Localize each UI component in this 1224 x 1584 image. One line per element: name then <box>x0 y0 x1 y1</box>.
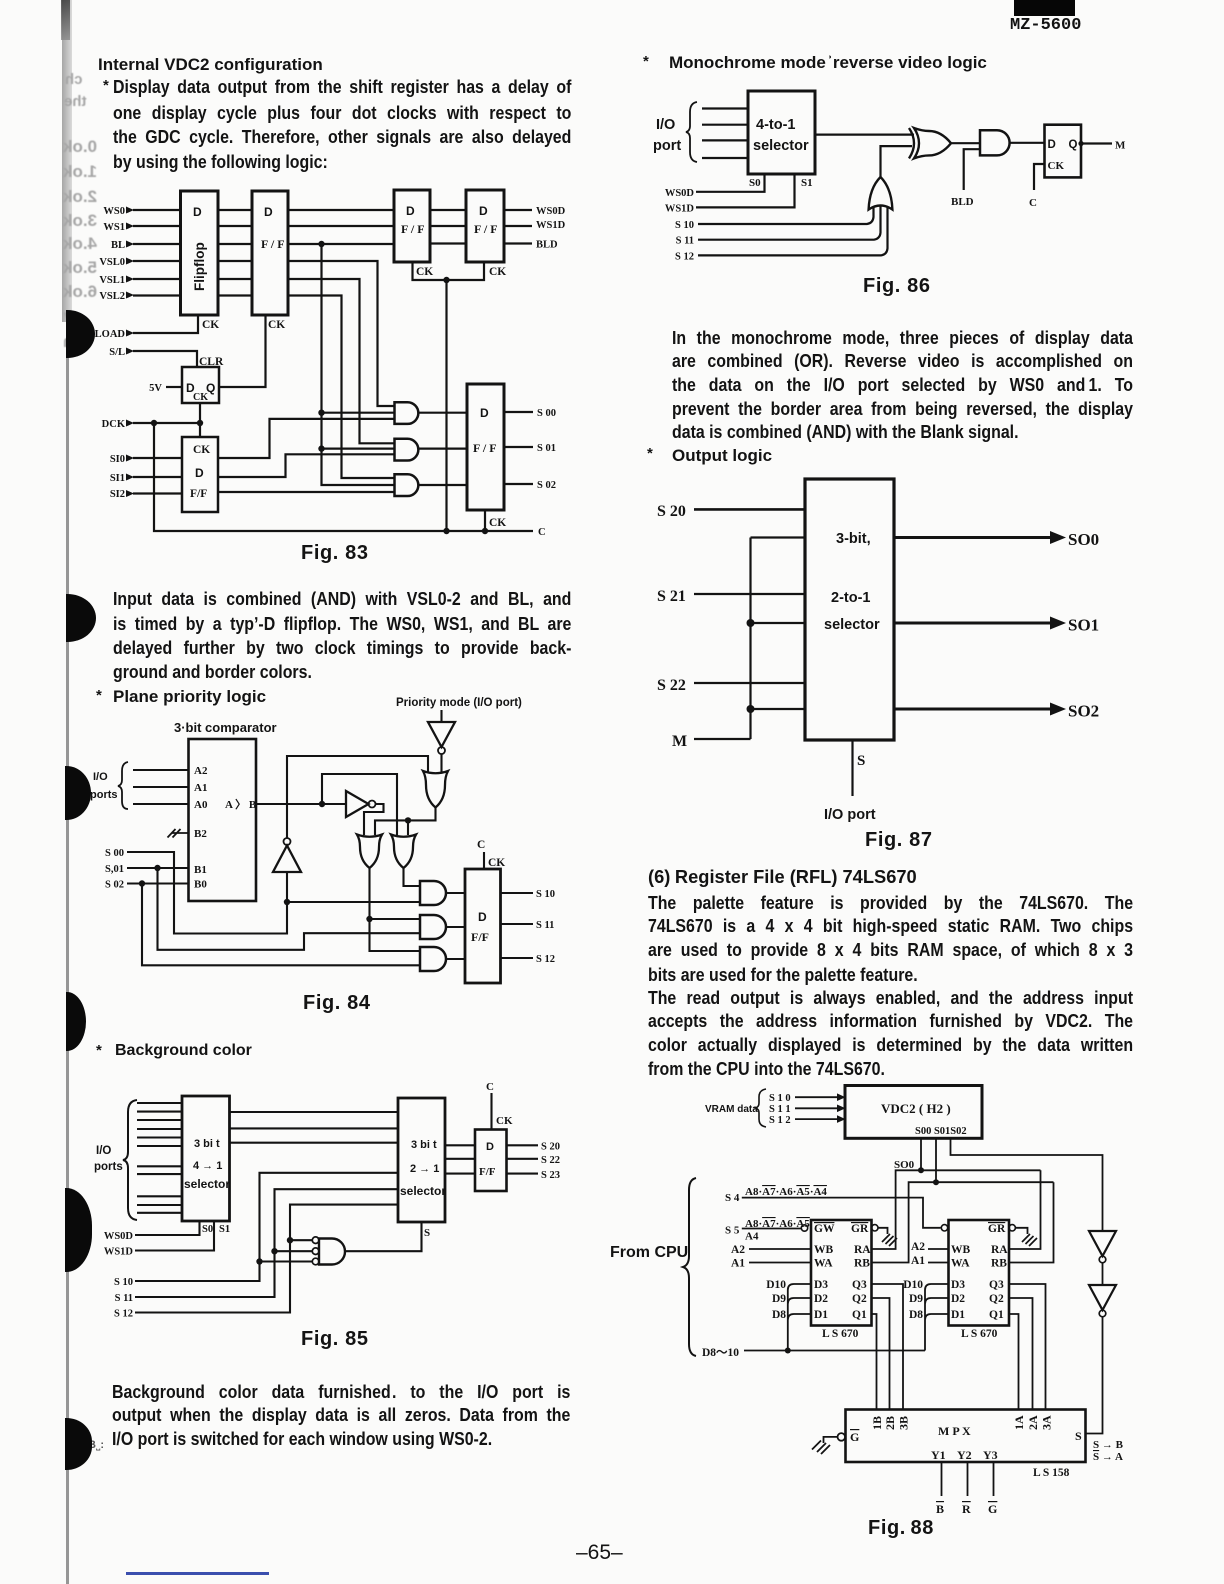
wire chip1 Q outputs to MPX B <box>872 1284 904 1410</box>
svg-text:VRAM data: VRAM data <box>705 1104 758 1115</box>
wire C rail from DCK <box>154 423 533 531</box>
AND gate A1 <box>395 402 419 424</box>
wires box2 to dff <box>445 1145 475 1173</box>
label SO0 <box>894 1159 915 1171</box>
svg-text:S00 S01S02: S00 S01S02 <box>915 1126 967 1137</box>
svg-text:RB: RB <box>854 1258 870 1270</box>
wire priority input <box>440 710 442 722</box>
svg-text:S 11: S 11 <box>115 1293 133 1304</box>
svg-text:S 22: S 22 <box>541 1155 560 1166</box>
output labels <box>536 206 566 538</box>
svg-text:D3: D3 <box>814 1279 828 1291</box>
svg-text:VSL2: VSL2 <box>99 291 125 302</box>
svg-text:A2: A2 <box>911 1241 925 1253</box>
inverter N3 (down) <box>428 722 455 747</box>
svg-text:CK: CK <box>268 319 285 331</box>
wire Q out to M <box>1081 142 1112 144</box>
labels 1B 2B 3B rotated <box>870 1415 1054 1430</box>
chip1 GW bubble <box>801 1225 807 1231</box>
wire A2 A1 chip2 <box>928 1249 949 1263</box>
labels D10 D9 D8 chip1 <box>766 1279 786 1321</box>
comparator U-3bit label <box>174 720 277 735</box>
node taps to AND <box>256 1237 293 1265</box>
wire B2 stub with hatch <box>168 829 189 838</box>
wire AND out to S <box>346 1222 422 1251</box>
bottom blue mark <box>126 1572 269 1575</box>
FIG87 <box>650 470 1120 830</box>
label VRAM data <box>705 1104 758 1115</box>
FIG85 <box>88 1075 593 1320</box>
svg-text:WS1D: WS1D <box>104 1247 134 1258</box>
inverter chain I2 <box>1089 1285 1116 1310</box>
wire WS1D to S1 <box>696 174 795 207</box>
svg-text:B: B <box>936 1502 944 1514</box>
node tap <box>747 705 755 713</box>
wires box1 to box2 <box>230 1112 399 1143</box>
inverter N1 (up) <box>273 846 301 873</box>
AND gate <box>980 130 1010 155</box>
svg-text:D2: D2 <box>951 1293 965 1305</box>
node DCK junctions <box>151 420 203 426</box>
MPX G bubble + ground <box>838 1433 846 1441</box>
svg-text:SI0: SI0 <box>110 454 125 465</box>
MPX box LS158 <box>846 1410 1086 1463</box>
svg-text:D: D <box>1048 139 1056 151</box>
wire WS1D <box>135 1221 214 1251</box>
wire N3 out <box>440 754 442 772</box>
label S00 S01 S02 <box>105 848 124 891</box>
OR gate (up) <box>869 177 893 210</box>
node CK bracket junction <box>443 277 449 283</box>
svg-text:From CPU: From CPU <box>610 1244 688 1261</box>
svg-text:B1: B1 <box>194 864 207 876</box>
svg-text:WS0D: WS0D <box>665 188 695 199</box>
wire AND out <box>1010 142 1045 144</box>
selector box 2to1 <box>398 1098 445 1222</box>
svg-text:CK: CK <box>489 266 506 278</box>
wire S01 drop <box>935 1138 937 1182</box>
svg-text:selector: selector <box>400 1184 446 1198</box>
OR gate ORd <box>423 771 448 808</box>
svg-text:WA: WA <box>951 1258 970 1270</box>
svg-text:S 02: S 02 <box>537 480 556 491</box>
chip2 GW bubble <box>941 1225 947 1231</box>
svg-text:M: M <box>672 733 687 750</box>
svg-text:S 12: S 12 <box>536 954 555 965</box>
svg-text:WA: WA <box>814 1258 833 1270</box>
OR gate ORb <box>391 835 416 869</box>
VDC2 box <box>845 1086 982 1139</box>
svg-text:4 → 1: 4 → 1 <box>193 1160 222 1172</box>
svg-text:D3: D3 <box>951 1279 965 1291</box>
svg-text:WS1: WS1 <box>103 222 125 233</box>
wire S22 <box>694 682 805 684</box>
svg-text:CK: CK <box>416 266 433 278</box>
svg-text:S 11: S 11 <box>536 920 554 931</box>
svg-text:B2: B2 <box>194 828 207 840</box>
svg-text:I/O: I/O <box>656 117 675 133</box>
svg-text:Q2: Q2 <box>852 1293 867 1305</box>
I/O port brace <box>686 102 697 162</box>
svg-text:R: R <box>962 1502 971 1514</box>
label S0 S1 <box>202 1224 230 1235</box>
wire S21 <box>694 593 805 595</box>
wire SI1 <box>133 454 395 477</box>
VRAM brace <box>756 1089 767 1127</box>
wire S10 <box>135 1173 398 1281</box>
svg-text:Q3: Q3 <box>989 1279 1004 1291</box>
svg-text:Q1: Q1 <box>852 1309 867 1321</box>
node C rail junctions <box>443 528 488 534</box>
wire SO0 net to RA pins <box>872 1170 1041 1249</box>
svg-text:S0: S0 <box>749 177 761 189</box>
svg-text:S → A: S → A <box>1093 1451 1123 1463</box>
svg-text:S 1 2: S 1 2 <box>769 1115 791 1126</box>
labels D10 D9 D8 chip2 <box>903 1279 923 1321</box>
svg-text:S 10: S 10 <box>536 889 555 900</box>
wire WS0D <box>135 1221 200 1235</box>
node S00 tap to AND-a <box>284 899 290 905</box>
svg-text:BLD: BLD <box>951 196 974 208</box>
svg-text:SO0: SO0 <box>894 1159 915 1171</box>
I/O ports brace <box>118 762 128 809</box>
node ORa tap <box>366 916 372 922</box>
svg-text:I/O: I/O <box>93 771 108 783</box>
output arrowheads <box>1050 530 1099 721</box>
svg-text:S 20: S 20 <box>541 1142 560 1153</box>
svg-text:GR: GR <box>851 1223 869 1235</box>
svg-text:D: D <box>480 406 489 420</box>
svg-text:I/O: I/O <box>96 1145 111 1157</box>
wire LOAD to box1 CK <box>133 315 198 333</box>
svg-text:D: D <box>193 205 202 219</box>
wire Y outputs <box>942 1462 994 1496</box>
shift F/F box (SI inputs) <box>182 437 218 512</box>
wire S20 <box>694 508 805 511</box>
labels A2 A1 chip1 <box>731 1244 745 1270</box>
wire S4 to chip2 GW <box>742 1198 941 1228</box>
svg-text:F/F: F/F <box>479 1166 496 1178</box>
wire WS0D to S0 <box>696 174 765 192</box>
svg-text:WS0: WS0 <box>103 206 125 217</box>
selector box 3bit 2-to-1 <box>805 479 894 740</box>
wire ORd out <box>375 807 436 835</box>
svg-text:CK: CK <box>488 857 505 869</box>
svg-text:S 01: S 01 <box>537 443 556 454</box>
labels A2 A1 chip2 <box>911 1241 925 1267</box>
svg-text:M P X: M P X <box>938 1424 971 1438</box>
D-Q flipflop with CLR <box>182 367 219 403</box>
ground chip2 <box>1022 1234 1037 1246</box>
wire A2 A1 chip1 <box>749 1249 811 1263</box>
wire D8~10 bus <box>744 1350 925 1352</box>
svg-text:F / F: F / F <box>261 237 285 251</box>
svg-text:D9: D9 <box>772 1293 786 1305</box>
AND gate Aa <box>420 881 446 905</box>
svg-text:F/F: F/F <box>190 488 207 500</box>
wire ORa tap to AND-b <box>370 918 421 920</box>
labels S to B / S to A <box>1093 1439 1124 1463</box>
svg-text:D8～10: D8～10 <box>702 1347 739 1359</box>
selector box 4-to-1 <box>748 91 815 174</box>
wire tap row3 <box>751 708 806 710</box>
label S0 S1 <box>749 177 813 189</box>
wire VSL2 <box>133 296 395 479</box>
wire VRAM arrows <box>795 1097 838 1119</box>
wire tap row2 <box>751 622 806 624</box>
svg-text:port: port <box>653 138 681 154</box>
node ORd branch <box>405 817 411 823</box>
svg-text:2-to-1: 2-to-1 <box>831 590 870 606</box>
svg-text:VSL1: VSL1 <box>99 275 125 286</box>
inverter chain I1 <box>1089 1231 1116 1256</box>
wire S select stub <box>851 740 853 796</box>
wire ORa out <box>370 868 421 951</box>
label LS158 <box>1033 1467 1070 1479</box>
wire A>B row <box>256 803 346 805</box>
svg-text:CLR: CLR <box>199 356 224 368</box>
svg-text:A1: A1 <box>911 1255 925 1267</box>
D-Q flipflop <box>1045 125 1082 178</box>
scan artifacts: left edge strip <box>62 0 72 322</box>
svg-text:VSL0: VSL0 <box>99 257 125 268</box>
wire chip2 Q outputs to MPX A <box>1009 1284 1046 1410</box>
wire S5 to chip1 GW <box>742 1228 801 1230</box>
svg-text:M: M <box>1115 140 1126 152</box>
wire S00 drop <box>920 1138 922 1170</box>
svg-text:S 1 0: S 1 0 <box>769 1093 791 1104</box>
svg-text:D1: D1 <box>814 1309 828 1321</box>
wire OR out <box>881 146 913 177</box>
svg-text:S 21: S 21 <box>657 588 686 605</box>
flip-flop box2 F/F <box>252 191 288 315</box>
wire SI0 <box>133 419 395 458</box>
wire AND outs <box>446 893 465 959</box>
node SO0 junction <box>918 1167 924 1173</box>
svg-text:C: C <box>477 839 485 851</box>
svg-text:Q3: Q3 <box>852 1279 867 1291</box>
chip2 GR bubble + ground <box>1009 1225 1015 1231</box>
svg-text:S 12: S 12 <box>114 1309 133 1320</box>
wire DQ CK down to shift box <box>199 403 201 437</box>
svg-text:Priority mode (I/O port): Priority mode (I/O port) <box>396 697 522 709</box>
svg-text:RA: RA <box>991 1244 1008 1256</box>
svg-text:Q: Q <box>1069 139 1078 151</box>
svg-text:BLD: BLD <box>536 240 558 251</box>
node SO1 junction <box>933 1179 939 1185</box>
svg-text:D: D <box>195 466 204 480</box>
svg-text:L S 670: L S 670 <box>961 1328 998 1340</box>
svg-text:S 02: S 02 <box>105 880 124 891</box>
wire M select vertical <box>694 538 805 740</box>
wire S10 S11 S12 into OR <box>698 203 888 255</box>
wire CK bracket boxes 3-4 <box>413 262 485 280</box>
svg-text:C: C <box>1029 197 1037 209</box>
svg-text:3-bit,: 3-bit, <box>836 531 871 547</box>
svg-text:WS0D: WS0D <box>104 1231 134 1242</box>
wire Q to box2 CK <box>219 315 266 387</box>
svg-text:Q2: Q2 <box>989 1293 1004 1305</box>
svg-text:S: S <box>857 753 865 769</box>
svg-text:S 10: S 10 <box>675 220 694 231</box>
svg-text:WB: WB <box>951 1244 971 1256</box>
svg-text:2A: 2A <box>1026 1415 1040 1430</box>
svg-text:S,01: S,01 <box>105 864 124 875</box>
node tap <box>747 619 755 627</box>
wire BLD <box>964 149 980 190</box>
selector box 4to1 <box>182 1096 230 1221</box>
register file chip1 LS670 <box>811 1220 872 1326</box>
svg-text:I/O port: I/O port <box>824 807 876 823</box>
bleed-through mirrored text <box>65 72 83 87</box>
wire N2 out wrap to OR-A <box>364 804 384 835</box>
wires inputs <box>702 109 748 159</box>
wire 5V input <box>166 386 182 388</box>
scan blobs <box>66 310 95 358</box>
svg-text:A2: A2 <box>731 1244 745 1256</box>
svg-text:selector: selector <box>824 617 880 633</box>
svg-text:S 1 1: S 1 1 <box>769 1104 791 1115</box>
wire S00 tap <box>287 901 420 903</box>
svg-text:LOAD: LOAD <box>95 329 126 340</box>
svg-text:SO2: SO2 <box>1068 702 1099 721</box>
flip-flop box D F/F <box>465 869 501 983</box>
svg-text:WS1D: WS1D <box>536 220 566 231</box>
svg-text:A4: A4 <box>745 1231 759 1243</box>
svg-text:A 〉 B: A 〉 B <box>225 798 257 811</box>
AND gate A2 <box>395 439 419 461</box>
wire S02 drop to inverter chain <box>951 1138 1103 1231</box>
wire outputs S10 S11 S12 <box>501 893 534 958</box>
node A>B tap <box>319 801 325 807</box>
wire S11 <box>135 1189 398 1297</box>
svg-text:D9: D9 <box>909 1293 923 1305</box>
svg-text:D8: D8 <box>909 1309 923 1321</box>
wire DCK <box>133 422 200 424</box>
svg-text:Y2: Y2 <box>957 1448 972 1462</box>
svg-text:S 11: S 11 <box>676 236 694 247</box>
node BL tap junctions <box>318 241 324 452</box>
OR gate ORa <box>357 835 382 869</box>
From CPU brace <box>683 1178 696 1356</box>
svg-text:CK: CK <box>193 392 208 403</box>
ground MPX <box>812 1441 830 1455</box>
FIG83 <box>90 183 590 565</box>
svg-text:D: D <box>478 910 487 924</box>
wire AND outputs to box5 <box>419 413 467 485</box>
svg-text:CK: CK <box>489 517 506 529</box>
figure captions <box>301 543 369 563</box>
svg-text:Y3: Y3 <box>983 1448 998 1462</box>
svg-text:GW: GW <box>814 1223 835 1235</box>
header black bar <box>1014 0 1075 16</box>
svg-text:S: S <box>1075 1429 1082 1443</box>
svg-text:D10: D10 <box>903 1279 923 1291</box>
wire SO1 net to RB pins <box>872 1182 1054 1262</box>
svg-text:VDC2 ( H2 ): VDC2 ( H2 ) <box>881 1101 951 1116</box>
svg-text:3 bi t: 3 bi t <box>411 1139 437 1151</box>
label S5 + address expression <box>725 1218 810 1243</box>
wire C clock <box>1034 164 1045 190</box>
wires input bundle <box>137 1103 182 1213</box>
svg-text:S0: S0 <box>202 1224 213 1235</box>
header model number MZ-5600 <box>1010 17 1081 34</box>
AND gate with inverted inputs <box>319 1239 345 1265</box>
wire box5 CK stub <box>484 510 486 531</box>
svg-text:CK: CK <box>193 444 210 456</box>
wire VSL0 <box>133 261 395 406</box>
input arrowheads <box>126 207 134 498</box>
svg-text:B0: B0 <box>194 879 207 891</box>
AND gate Ab <box>420 915 446 939</box>
svg-text:2 → 1: 2 → 1 <box>410 1163 439 1175</box>
svg-text:S 00: S 00 <box>105 848 124 859</box>
label Priority mode <box>396 697 522 709</box>
svg-text:2B: 2B <box>883 1416 897 1430</box>
svg-text:D: D <box>486 1141 494 1153</box>
wire D riser chip2 <box>925 1284 949 1351</box>
label S4 + address expression <box>725 1186 827 1204</box>
svg-text:3A: 3A <box>1040 1415 1054 1430</box>
flip-flop D F/F <box>475 1130 507 1192</box>
svg-text:C: C <box>538 527 546 538</box>
svg-text:RB: RB <box>991 1258 1007 1270</box>
svg-text:S → B: S → B <box>1093 1439 1124 1451</box>
comparator box <box>189 739 257 901</box>
svg-text:DCK: DCK <box>102 419 126 430</box>
I/O ports big brace <box>123 1100 137 1220</box>
wire ORb out to AND-a <box>404 868 421 886</box>
wire selector out to XOR <box>815 134 914 136</box>
svg-text:F / F: F / F <box>474 222 498 236</box>
labels S10 S11 S12 <box>769 1093 791 1126</box>
svg-text:F / F: F / F <box>401 222 425 236</box>
svg-text:D2: D2 <box>814 1293 828 1305</box>
wire SI2 <box>133 492 395 494</box>
wire N1 out to OR-d <box>287 756 428 838</box>
svg-text:ports: ports <box>94 1161 123 1173</box>
node S01 junction <box>154 865 160 871</box>
svg-text:D1: D1 <box>951 1309 965 1321</box>
svg-text:D10: D10 <box>766 1279 786 1291</box>
svg-text:S 22: S 22 <box>657 677 686 694</box>
wire C clock <box>490 1093 492 1130</box>
FIG86 <box>645 85 1135 265</box>
svg-text:WS0D: WS0D <box>536 206 566 217</box>
wire tap to OR-B <box>322 774 397 835</box>
node S02 junction <box>139 880 145 886</box>
svg-text:S 20: S 20 <box>657 503 686 520</box>
svg-text:A8·A7·A6·A5·A4: A8·A7·A6·A5·A4 <box>745 1186 827 1198</box>
svg-text:3 bi t: 3 bi t <box>194 1138 220 1150</box>
flip-flop box5 output F/F <box>467 384 504 510</box>
svg-text:S 23: S 23 <box>541 1170 560 1181</box>
ground chip1 <box>882 1234 897 1246</box>
svg-text:L S 670: L S 670 <box>822 1328 859 1340</box>
wire SO2 output <box>894 708 1052 711</box>
wire S12 <box>135 1205 398 1313</box>
FIG84 <box>88 692 593 987</box>
XOR gate <box>914 128 951 158</box>
wire BL row <box>133 242 532 245</box>
svg-text:D: D <box>479 204 488 218</box>
svg-text:G: G <box>850 1430 859 1444</box>
wire XOR out <box>951 142 980 144</box>
svg-text:ports: ports <box>90 789 118 801</box>
svg-text:S 10: S 10 <box>114 1277 133 1288</box>
svg-text:S1: S1 <box>219 1224 230 1235</box>
wire S/L to CLR <box>133 351 197 367</box>
